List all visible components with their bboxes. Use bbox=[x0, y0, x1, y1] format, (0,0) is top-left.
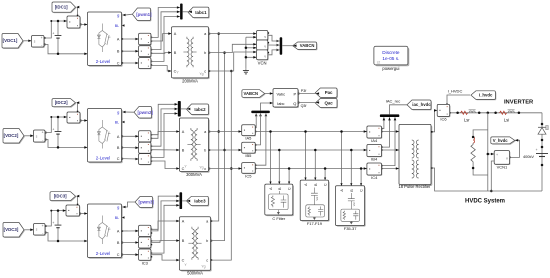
wire neutral to v3- bbox=[246, 56, 256, 58]
svg-text:C: C bbox=[324, 183, 328, 186]
svg-text:+: + bbox=[496, 153, 498, 157]
wire measurement 3 signal to mux row 2 bbox=[151, 114, 178, 158]
from tag VABCN bbox=[243, 91, 266, 99]
svg-text:g: g bbox=[117, 205, 119, 210]
from tag pwm3 bbox=[136, 197, 154, 208]
svg-text:Lsi: Lsi bbox=[504, 117, 509, 122]
svg-text:c: c bbox=[206, 259, 208, 263]
phase line c to IA4 group bbox=[255, 168, 366, 170]
wire IDC1 signal bbox=[78, 7, 79, 16]
svg-text:IC5: IC5 bbox=[245, 173, 252, 178]
svg-text:V_hvdc: V_hvdc bbox=[493, 138, 509, 143]
svg-text:+: + bbox=[52, 127, 54, 131]
svg-text:BL: BL bbox=[115, 121, 119, 125]
svg-text:2-Level: 2-Level bbox=[96, 251, 110, 256]
wire neutral to v1- bbox=[246, 36, 256, 38]
row 1 subsystem bbox=[2, 2, 210, 69]
wire converter C to measurement row 2 bbox=[122, 158, 139, 160]
wire VCN v1 to mux bbox=[268, 35, 280, 41]
svg-text:+: + bbox=[536, 148, 538, 152]
wires measurement stack to transformer T3 bbox=[151, 221, 179, 231]
filter 1 phase B drop bbox=[278, 150, 280, 184]
rectifier block 18 Pulse bbox=[400, 126, 432, 186]
wire VM3+ to current measurement bbox=[45, 211, 66, 226]
wire VM1+ to current measurement bbox=[44, 21, 67, 38]
wire mux to Iabc2 bbox=[181, 108, 190, 110]
mux VABCN bbox=[280, 37, 283, 54]
junction battery bottom row 2 bbox=[57, 146, 60, 149]
wire IB4 signal to mux bbox=[382, 117, 390, 147]
diode junction dots bbox=[541, 123, 544, 126]
mux Iabc row 3 bbox=[180, 192, 183, 209]
svg-text:Q3f: Q3f bbox=[301, 104, 307, 108]
svg-text:+: + bbox=[42, 130, 44, 134]
svg-text:C: C bbox=[288, 187, 292, 190]
transformer T3 500MVA bbox=[181, 218, 212, 272]
svg-text:b: b bbox=[204, 51, 206, 55]
svg-text:b: b bbox=[206, 239, 208, 243]
current measurement IDC1 bbox=[68, 17, 81, 29]
svg-text:400kV: 400kV bbox=[523, 154, 534, 159]
svg-text:Yg: Yg bbox=[201, 264, 205, 268]
goto tag V_hvdc bbox=[492, 138, 516, 145]
svg-text:IC4: IC4 bbox=[371, 175, 378, 180]
svg-text:B: B bbox=[182, 149, 185, 153]
wire current measurement to converter plus row 1 bbox=[80, 24, 87, 26]
main vertical drop bbox=[487, 113, 489, 191]
goto tag IDC2 bbox=[53, 100, 77, 108]
current measurement block 2 row 3 bbox=[139, 238, 151, 249]
svg-text:C: C bbox=[117, 62, 120, 66]
svg-text:HVDC System: HVDC System bbox=[465, 198, 505, 204]
wire converter C to measurement row 1 bbox=[122, 62, 139, 64]
series RL branch Lsi bbox=[500, 111, 507, 114]
two-level converter U2 bbox=[89, 110, 123, 164]
wire measurement 2 signal to mux row 2 bbox=[151, 109, 178, 146]
controlled voltage source VM2 bbox=[34, 131, 46, 143]
dc source 400kV bbox=[536, 153, 548, 155]
wire rectifier plus to IC6 bbox=[431, 110, 437, 131]
svg-text:[IDC1]: [IDC1] bbox=[55, 5, 68, 10]
wire IDC2 signal bbox=[78, 103, 79, 112]
svg-text:A: A bbox=[174, 32, 177, 36]
junction corner row 2 bbox=[50, 116, 52, 118]
current measurement block 1 row 2 bbox=[139, 132, 151, 143]
mux Iabc row 2 bbox=[178, 101, 181, 117]
filter block F35-37 bbox=[337, 187, 366, 227]
svg-text:[VDC3]: [VDC3] bbox=[4, 227, 19, 232]
junction corner row 3 bbox=[50, 210, 52, 212]
current measurement block 3 row 3 bbox=[139, 250, 151, 261]
filter 3 phase A drop bbox=[341, 132, 343, 186]
svg-text:I_HVDC: I_HVDC bbox=[448, 89, 463, 94]
svg-text:b: b bbox=[204, 149, 206, 153]
junction battery bottom row 1 bbox=[57, 53, 60, 56]
phase A bus vertical bbox=[211, 34, 219, 221]
mux Iabc row 1 bbox=[180, 4, 183, 20]
goto tag IDC1 bbox=[53, 3, 77, 13]
wire measurement 3 signal to mux row 3 bbox=[151, 205, 179, 253]
wire current measurement to converter plus row 3 bbox=[80, 213, 88, 215]
svg-text:Vabc: Vabc bbox=[277, 91, 286, 96]
svg-text:BL: BL bbox=[115, 216, 119, 220]
wire T1 b to VCN v2 bbox=[209, 44, 257, 52]
filter 2 phase B drop bbox=[314, 150, 316, 180]
junction dots dc line bbox=[456, 112, 459, 115]
junction battery top row 3 bbox=[57, 209, 60, 212]
DC source battery row 2 bbox=[57, 117, 59, 131]
diode D1 bbox=[538, 128, 546, 135]
svg-text:IA4: IA4 bbox=[371, 138, 378, 143]
svg-text:+: + bbox=[52, 221, 54, 225]
phase line b to IA4 group bbox=[255, 149, 366, 151]
wire measurement 1 signal to mux row 1 bbox=[151, 8, 180, 38]
wire IA4 signal to mux bbox=[382, 117, 384, 128]
wire pwm1 to g port bbox=[125, 13, 132, 16]
svg-text:IC6: IC6 bbox=[440, 117, 447, 122]
current measurement block 3 row 1 bbox=[139, 58, 151, 69]
svg-text:2-Level: 2-Level bbox=[96, 156, 110, 161]
wire converter B to measurement row 3 bbox=[122, 242, 139, 244]
svg-text:B: B bbox=[174, 51, 177, 55]
svg-text:g: g bbox=[117, 110, 119, 115]
wire measurement 1 signal to mux row 2 bbox=[151, 104, 178, 134]
svg-text:P: P bbox=[293, 91, 296, 96]
wire T2 phase to IC5 bbox=[209, 168, 242, 170]
svg-text:A: A bbox=[182, 130, 185, 134]
svg-text:IC3: IC3 bbox=[142, 261, 149, 266]
svg-text:iac_hvdc: iac_hvdc bbox=[412, 102, 431, 107]
svg-text:P3f: P3f bbox=[301, 89, 306, 93]
bottom dc bus bbox=[431, 168, 542, 191]
junction neutral v3 bbox=[245, 56, 248, 59]
ground below VCN bbox=[245, 68, 247, 70]
junction dots bus row2 bbox=[217, 130, 220, 133]
wire converter A to measurement row 1 bbox=[122, 38, 139, 40]
current measurement IA5 bbox=[243, 126, 257, 137]
svg-text:F17-F19: F17-F19 bbox=[307, 221, 323, 226]
goto tag Qac bbox=[316, 99, 338, 108]
svg-text:500MVA: 500MVA bbox=[187, 271, 203, 276]
wire VCN1 minus bbox=[491, 161, 494, 191]
svg-text:+: + bbox=[42, 224, 44, 228]
wire VM2- to converter minus bbox=[45, 140, 87, 148]
svg-text:Iabc1: Iabc1 bbox=[195, 10, 207, 15]
junction resistor top bbox=[472, 136, 475, 139]
DC source battery row 1 bbox=[57, 21, 59, 35]
svg-text:VCN: VCN bbox=[258, 60, 267, 65]
svg-text:200MVA: 200MVA bbox=[182, 79, 198, 84]
junction corner row 1 bbox=[50, 20, 52, 22]
mux Iabc rectifier-side bbox=[251, 111, 269, 114]
wires measurement stack to transformer T2 bbox=[151, 132, 179, 139]
wire T2 phase to IA5 bbox=[209, 131, 242, 133]
svg-text:IB4: IB4 bbox=[371, 157, 378, 162]
two-level converter U3 bbox=[89, 205, 123, 259]
svg-text:Qac: Qac bbox=[324, 101, 333, 106]
svg-text:B: B bbox=[182, 239, 185, 243]
wire Q to Qac bbox=[298, 102, 319, 104]
wire T2 phase to IB5 bbox=[209, 149, 242, 151]
row 2 subsystem bbox=[3, 99, 209, 166]
wire measurement 1 signal to mux row 3 bbox=[151, 196, 179, 229]
svg-text:C: C bbox=[117, 253, 120, 257]
controlled voltage source VM1 bbox=[32, 36, 45, 48]
svg-text:F35-37: F35-37 bbox=[344, 226, 357, 231]
svg-text:c: c bbox=[204, 167, 206, 171]
svg-text:IAC_rec: IAC_rec bbox=[386, 99, 400, 104]
from tag pwm2 bbox=[135, 107, 153, 119]
svg-text:18 Pulse Rectifier: 18 Pulse Rectifier bbox=[398, 184, 431, 189]
from tag VDC2 bbox=[4, 129, 25, 144]
wire VM3- to converter minus bbox=[45, 233, 87, 242]
filter 3 phase B drop bbox=[350, 150, 352, 185]
junction battery top row 1 bbox=[57, 20, 60, 23]
transformer T2 300MVA bbox=[181, 119, 210, 173]
wire mux to iac_hvdc bbox=[390, 105, 411, 115]
filter 1 phase C drop bbox=[288, 169, 290, 184]
junction battery bottom row 3 bbox=[57, 240, 60, 243]
svg-text:Iabc2: Iabc2 bbox=[194, 107, 206, 112]
current measurement IDC3 bbox=[67, 206, 81, 217]
DC source battery row 3 bbox=[57, 211, 59, 225]
svg-text:C: C bbox=[360, 189, 364, 192]
from tag VDC1 bbox=[3, 34, 24, 49]
goto tag Iabc3 bbox=[187, 197, 209, 206]
wire VCN v3 to mux bbox=[268, 50, 280, 55]
wire mux to VABCN tag bbox=[282, 45, 296, 47]
wire neutral to v2- bbox=[246, 47, 256, 49]
svg-text:VABCN: VABCN bbox=[244, 91, 259, 96]
wire VM1- to converter minus bbox=[44, 45, 87, 54]
svg-text:Lsr: Lsr bbox=[464, 117, 470, 122]
goto tag VABCN bbox=[294, 43, 318, 50]
current measurement block 2 row 1 bbox=[139, 47, 151, 58]
wire IA5 signal to mux bbox=[255, 114, 256, 128]
current measurement IB5 bbox=[243, 143, 257, 154]
series RL branch Lsr bbox=[461, 111, 468, 114]
power measurement block PQ bbox=[274, 90, 299, 108]
svg-text:s2: s2 bbox=[377, 60, 381, 64]
svg-text:g: g bbox=[117, 13, 119, 18]
svg-text:[pwm3]: [pwm3] bbox=[139, 200, 155, 205]
wire mux to Iabc3 bbox=[182, 200, 190, 202]
junction VCN1 plus bbox=[487, 153, 490, 156]
wire measurement 2 signal to mux row 1 bbox=[151, 12, 180, 50]
filter 2 phase A drop bbox=[305, 132, 307, 180]
wire converter B to measurement row 1 bbox=[122, 50, 139, 52]
VCN neutral line bbox=[245, 37, 247, 68]
transformer T1 200MVA bbox=[173, 28, 210, 79]
wire T1 a to VCN v1 bbox=[209, 33, 257, 35]
svg-text:Iabc3: Iabc3 bbox=[194, 198, 206, 203]
wire IDC3 signal bbox=[78, 196, 79, 205]
current measurement IA4 bbox=[368, 127, 383, 139]
svg-text:IA5: IA5 bbox=[245, 136, 252, 141]
wire T1 c to VCN v3 bbox=[209, 52, 257, 71]
voltage measurement VCN stack bbox=[257, 31, 268, 41]
current measurement IB4 bbox=[368, 145, 383, 157]
svg-text:Val: Val bbox=[315, 196, 319, 200]
phase line a to IA4 group bbox=[255, 131, 366, 133]
from tag VDC3 bbox=[4, 223, 25, 238]
svg-text:Discrete: Discrete bbox=[382, 50, 400, 55]
svg-text:INVERTER: INVERTER bbox=[504, 100, 534, 106]
wire current measurement to converter plus row 2 bbox=[80, 120, 87, 122]
svg-text:[pwm2]: [pwm2] bbox=[138, 110, 154, 115]
wire measurement 2 signal to mux row 3 bbox=[151, 201, 179, 241]
svg-text:2-Level: 2-Level bbox=[96, 59, 110, 64]
svg-text:[pwm1]: [pwm1] bbox=[136, 12, 152, 17]
svg-text:VCN1: VCN1 bbox=[497, 165, 508, 170]
filter 2 phase C drop bbox=[324, 169, 326, 180]
wire VDC3 to VM3 bbox=[24, 229, 33, 231]
two-level converter U1 bbox=[89, 13, 123, 66]
wire converter C to measurement row 3 bbox=[122, 254, 139, 256]
svg-text:+: + bbox=[41, 36, 43, 40]
current measurement IC6 bbox=[438, 105, 451, 117]
wire IC4 signal to mux bbox=[382, 117, 396, 165]
junction battery top row 2 bbox=[57, 116, 60, 119]
current measurement block 2 row 2 bbox=[139, 143, 151, 154]
junction dots bus row1 bbox=[217, 32, 220, 35]
junction resistor bottom bbox=[472, 167, 475, 170]
BL port arrow row 2 bbox=[122, 121, 125, 124]
BL port arrow row 1 bbox=[122, 24, 125, 27]
wires measurement stack to transformer T1 bbox=[151, 34, 171, 41]
svg-text:C Filter: C Filter bbox=[272, 216, 286, 221]
wire pwm3 to g port bbox=[125, 202, 135, 207]
svg-text:BL: BL bbox=[115, 24, 119, 28]
wire VM2+ to current measurement bbox=[45, 117, 67, 133]
svg-text:Val: Val bbox=[352, 202, 356, 206]
svg-text:powergui: powergui bbox=[382, 66, 399, 71]
BL port arrow row 3 bbox=[122, 216, 125, 219]
wire P to Pac bbox=[298, 93, 319, 95]
svg-text:300MVA: 300MVA bbox=[186, 172, 202, 177]
goto tag iac_hvdc bbox=[408, 101, 432, 111]
svg-text:[IDC3]: [IDC3] bbox=[54, 194, 67, 199]
goto tag I_hvdc bbox=[472, 92, 497, 101]
wire mux to Iabc port bbox=[261, 103, 273, 111]
svg-text:C: C bbox=[182, 259, 185, 263]
row 3 subsystem bbox=[3, 192, 209, 266]
phase C bus vertical bbox=[211, 71, 232, 260]
damping resistor branch bbox=[473, 130, 488, 137]
svg-text:Yg: Yg bbox=[199, 72, 203, 76]
filter 1 phase A drop bbox=[270, 132, 272, 184]
mux IAC_rec bbox=[380, 114, 399, 117]
wire VCN v2 to mux bbox=[268, 44, 280, 46]
diode branch bbox=[541, 113, 543, 191]
goto tag Pac bbox=[316, 89, 338, 98]
svg-text:Pac: Pac bbox=[325, 90, 333, 95]
goto tag Iabc1 bbox=[189, 8, 210, 19]
svg-text:IB5: IB5 bbox=[245, 153, 252, 158]
current measurement IC5 bbox=[243, 163, 257, 174]
wire IB4 to rectifier bbox=[382, 149, 399, 151]
phase B bus vertical bbox=[211, 53, 225, 241]
wire pwm2 to g port bbox=[125, 111, 134, 113]
controlled voltage source VM3 bbox=[34, 224, 46, 236]
svg-text:A: A bbox=[182, 220, 185, 224]
svg-text:[IDC2]: [IDC2] bbox=[55, 100, 68, 105]
svg-text:[VDC2]: [VDC2] bbox=[4, 133, 19, 138]
svg-text:Q: Q bbox=[293, 101, 296, 106]
svg-text:VABCN: VABCN bbox=[300, 43, 315, 48]
junction VCN1 minus bottom bbox=[490, 190, 493, 193]
goto tag Iabc2 bbox=[187, 105, 209, 116]
junction neutral v2 bbox=[245, 47, 248, 50]
wire IC6 signal to I_hvdc bbox=[447, 95, 470, 104]
svg-text:1e-05 s.: 1e-05 s. bbox=[382, 56, 399, 61]
filter block C Filter bbox=[266, 185, 294, 216]
voltage measurement VCN1 bbox=[495, 151, 510, 165]
svg-text:v: v bbox=[506, 157, 508, 161]
svg-text:+: + bbox=[52, 31, 54, 35]
wire VCN1 plus bbox=[488, 153, 494, 155]
svg-text:[VDC1]: [VDC1] bbox=[3, 38, 18, 43]
wire VCN1 v to V_hvdc bbox=[510, 140, 520, 157]
wire mux to Iabc1 bbox=[183, 11, 192, 13]
current measurement IDC2 bbox=[68, 113, 81, 124]
svg-text:I_hvdc: I_hvdc bbox=[479, 93, 493, 98]
current measurement block 1 row 1 bbox=[139, 34, 151, 46]
wire converter A to measurement row 3 bbox=[122, 230, 139, 232]
current measurement IC4 bbox=[368, 164, 383, 176]
wire VDC1 to VM1 bbox=[23, 40, 31, 42]
filter 3 phase C drop bbox=[360, 169, 362, 186]
wire measurement 3 signal to mux row 1 bbox=[151, 17, 180, 62]
wire VDC2 to VM2 bbox=[24, 135, 33, 137]
from tag pwm1 bbox=[133, 9, 151, 22]
wire converter B to measurement row 2 bbox=[122, 147, 139, 149]
svg-text:Yg: Yg bbox=[199, 166, 203, 170]
wire IC4 to rectifier bbox=[382, 168, 399, 170]
filter block F17-F19 bbox=[301, 181, 329, 221]
current measurement block 3 row 2 bbox=[139, 154, 151, 165]
goto tag IDC3 bbox=[51, 193, 77, 202]
main dc line bbox=[450, 112, 542, 114]
svg-text:c: c bbox=[204, 70, 206, 74]
current measurement block 1 row 3 bbox=[139, 226, 151, 237]
powergui block bbox=[375, 48, 409, 67]
wire IA4 to rectifier bbox=[382, 131, 399, 133]
wire IC5 signal to mux bbox=[255, 114, 266, 166]
svg-text:C: C bbox=[117, 157, 120, 161]
svg-text:Iabc: Iabc bbox=[277, 101, 284, 106]
wire converter A to measurement row 2 bbox=[122, 135, 139, 137]
wire IB5 signal to mux bbox=[255, 114, 260, 145]
wire VABCN to PQ block bbox=[265, 93, 273, 95]
